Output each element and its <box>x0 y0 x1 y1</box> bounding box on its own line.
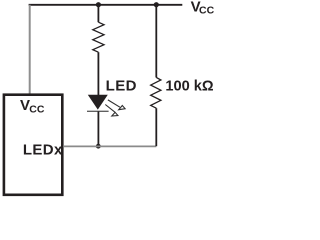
wire from top rail down to 100k resistor <box>155 5 157 78</box>
svg-text:100 kΩ: 100 kΩ <box>165 78 214 94</box>
resistor 100 kOhm <box>151 77 161 108</box>
svg-text:LEDx: LEDx <box>23 141 63 158</box>
pin label VCC (inside box) <box>20 97 45 115</box>
wire from LED cathode down to bottom node <box>97 111 99 146</box>
node junction dot at top of R1 <box>96 2 101 7</box>
top VCC rail wire <box>29 4 183 6</box>
node junction dot at top of 100k resistor <box>154 2 159 7</box>
LED emission arrow 1 <box>108 100 125 110</box>
svg-text:CC: CC <box>199 4 214 16</box>
LED emission arrow 2 <box>105 105 118 117</box>
LED D1 cathode bar <box>87 110 109 112</box>
svg-text:LED: LED <box>106 78 137 95</box>
resistor R1 (LED series resistor) <box>93 22 104 52</box>
svg-text:CC: CC <box>29 103 45 115</box>
wire from top rail down to resistor R1 <box>97 5 99 23</box>
LED D1 triangle (anode) <box>88 95 108 110</box>
junction dot at bottom node <box>96 144 101 149</box>
bottom wire from LEDx pin to 100k resistor <box>63 145 156 147</box>
device box <box>4 95 62 195</box>
wire from 100k resistor down to bottom wire <box>155 108 157 146</box>
wire from box VCC pin up to top rail <box>29 5 31 94</box>
wire from R1 down to LED anode <box>97 52 99 95</box>
power VCC label (top right) <box>191 0 215 16</box>
